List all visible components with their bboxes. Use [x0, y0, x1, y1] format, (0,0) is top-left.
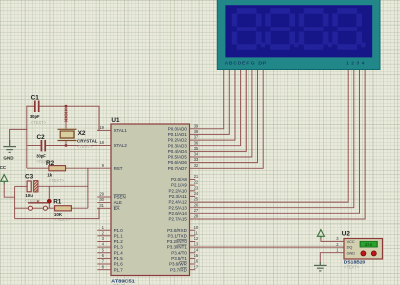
U1 right pin names	[167, 126, 188, 272]
svg-text:1: 1	[346, 61, 349, 67]
svg-text:P2.1/A9: P2.1/A9	[171, 183, 187, 188]
svg-text:F: F	[246, 61, 249, 67]
microcontroller U1 AT89C51 body	[111, 124, 190, 276]
svg-text:P0.7/AD7: P0.7/AD7	[168, 166, 188, 171]
svg-text:P0.4/AD4: P0.4/AD4	[168, 149, 188, 154]
svg-text:24: 24	[194, 191, 199, 196]
push button	[28, 200, 48, 210]
wire VCC to rail	[4, 183, 14, 197]
display segment pin labels ABCDEFG DP	[225, 61, 268, 67]
svg-text:P0.0/AD0: P0.0/AD0	[168, 126, 188, 131]
wire ground stem	[9, 129, 11, 141]
wire P2.6 to display digit 3	[190, 69, 360, 213]
junction B	[65, 144, 68, 147]
wire crystal top pin	[65, 106, 67, 128]
wire C1 to XTAL1	[39, 106, 99, 130]
wire to ground	[10, 128, 28, 130]
U2 pin numbers	[336, 236, 339, 252]
svg-text:P3.4/T0: P3.4/T0	[171, 250, 187, 255]
wire P1 pin stubs 1-8	[97, 230, 111, 270]
wire VCC to C3	[15, 185, 27, 187]
svg-text:27.0: 27.0	[365, 243, 372, 247]
wire ALE pin stub 30	[97, 202, 111, 204]
svg-text:15: 15	[194, 253, 199, 258]
svg-text:34: 34	[194, 152, 199, 157]
wire C3 net to button row	[48, 186, 50, 208]
wire XTAL1 pin stub 19	[97, 129, 111, 131]
wire P0.1 to display	[190, 69, 230, 134]
U2 pin names	[347, 240, 356, 255]
wire VCC rail vertical	[14, 186, 16, 218]
svg-text:P3.6/WR: P3.6/WR	[169, 262, 187, 267]
svg-text:<TEXT>: <TEXT>	[77, 144, 93, 149]
wire P0.4 to display	[190, 69, 247, 151]
svg-text:U1: U1	[111, 117, 120, 124]
svg-text:30pF: 30pF	[30, 114, 40, 119]
svg-text:33: 33	[194, 157, 199, 162]
svg-text:13: 13	[194, 242, 199, 247]
svg-text:P1.7: P1.7	[114, 267, 124, 272]
svg-text:P2.6/A14: P2.6/A14	[169, 211, 188, 216]
svg-text:P3.7/RD: P3.7/RD	[170, 267, 187, 272]
svg-text:28: 28	[194, 214, 199, 219]
svg-text:18: 18	[99, 140, 104, 145]
svg-text:P0.3/AD3: P0.3/AD3	[168, 143, 188, 148]
svg-text:GND: GND	[347, 251, 356, 255]
svg-text:31: 31	[99, 203, 104, 208]
wire ground rail vertical	[26, 106, 28, 169]
wire U2 GND down	[320, 253, 344, 264]
wire P0.7 to display	[190, 69, 264, 168]
svg-text:P0.5/AD5: P0.5/AD5	[168, 155, 188, 160]
svg-text:P2.5/A13: P2.5/A13	[169, 205, 188, 210]
wire C2 left	[27, 145, 40, 147]
svg-text:XTAL1: XTAL1	[114, 128, 128, 133]
svg-text:<TEXT>: <TEXT>	[31, 120, 47, 125]
svg-text:C3: C3	[25, 174, 34, 181]
resistor R1	[55, 206, 72, 211]
wire P0.3 to display	[190, 69, 241, 145]
svg-text:C: C	[233, 61, 237, 67]
svg-text:VCC: VCC	[0, 165, 7, 170]
wire P3.3 to U2 DQ	[190, 246, 345, 248]
svg-text:P3.1/TXD: P3.1/TXD	[168, 233, 187, 238]
svg-text:P0.1/AD1: P0.1/AD1	[168, 132, 188, 137]
wire R1/C3 to RST vertical	[87, 168, 89, 208]
svg-text:XTAL2: XTAL2	[114, 143, 128, 148]
svg-text:30: 30	[99, 197, 104, 202]
wire crystal bottom pin	[65, 141, 67, 146]
svg-text:26: 26	[194, 202, 199, 207]
svg-text:25: 25	[194, 197, 199, 202]
svg-text:PSEN: PSEN	[114, 195, 126, 200]
svg-text:P0.6/AD6: P0.6/AD6	[168, 160, 188, 165]
power VCC for U2	[317, 230, 324, 239]
svg-text:B: B	[229, 61, 233, 67]
svg-text:DQ: DQ	[347, 246, 353, 250]
svg-text:<TEXT>: <TEXT>	[54, 217, 70, 222]
temperature sensor U2 DS18B20 body	[344, 239, 383, 260]
svg-text:VCC: VCC	[347, 240, 355, 244]
svg-text:DP: DP	[258, 61, 267, 67]
svg-text:P1.5: P1.5	[114, 256, 124, 261]
wire P2.7 to display digit 4	[190, 69, 366, 219]
wire VCC to U2 pin 3	[321, 238, 344, 241]
svg-text:EA: EA	[114, 206, 120, 211]
capacitor C1	[35, 101, 39, 113]
svg-text:P2.0/A8: P2.0/A8	[171, 177, 187, 182]
svg-text:P1.0: P1.0	[114, 228, 124, 233]
svg-text:10: 10	[194, 225, 199, 230]
wire to button	[15, 207, 29, 209]
svg-text:38: 38	[194, 129, 199, 134]
wire C3 to RST net	[38, 185, 88, 187]
svg-text:4: 4	[362, 61, 365, 67]
wire PSEN pin stub 29	[97, 196, 111, 198]
svg-text:1k: 1k	[47, 173, 52, 178]
svg-text:R1: R1	[53, 198, 62, 205]
U2 LCD readout	[360, 241, 378, 248]
ground for U2	[314, 262, 327, 271]
wire P0.6 to display	[190, 69, 258, 162]
wire XTAL2 pin stub 18	[97, 145, 111, 147]
U2 buttons	[361, 251, 376, 256]
svg-text:19: 19	[99, 125, 104, 130]
svg-text:P1.3: P1.3	[114, 245, 124, 250]
wire P2.0-P2.3 pin stubs	[190, 180, 196, 197]
svg-text:R2: R2	[46, 160, 55, 167]
wire P2.5 to display digit 2	[190, 69, 354, 207]
svg-text:16: 16	[194, 259, 199, 264]
wire C2 to XTAL2	[46, 145, 98, 147]
pin cross marks	[65, 109, 68, 122]
svg-text:3: 3	[356, 61, 359, 67]
wire button middle	[33, 207, 44, 209]
svg-text:29: 29	[99, 192, 104, 197]
7-segment display DS1	[217, 0, 380, 70]
svg-text:12: 12	[194, 236, 199, 241]
wire P0.2 to display	[190, 69, 236, 140]
resistor R2	[49, 166, 66, 171]
svg-text:GND: GND	[3, 156, 13, 161]
junction A	[65, 105, 68, 108]
svg-text:P3.5/T1: P3.5/T1	[171, 256, 187, 261]
svg-text:11: 11	[194, 230, 199, 235]
U1 left pin numbers	[99, 125, 104, 269]
crystal X2	[58, 129, 77, 140]
svg-text:P1.1: P1.1	[114, 233, 124, 238]
svg-text:2: 2	[351, 61, 354, 67]
wire button to R1	[48, 207, 55, 209]
svg-text:ALE: ALE	[114, 200, 122, 205]
wire EA pin stub 31	[97, 207, 111, 209]
svg-text:14: 14	[194, 247, 199, 252]
svg-text:RST: RST	[114, 166, 123, 171]
svg-text:P0.2/AD2: P0.2/AD2	[168, 138, 188, 143]
svg-text:P3.2/INT0: P3.2/INT0	[167, 239, 188, 244]
svg-text:<TEXT>: <TEXT>	[344, 265, 360, 270]
svg-text:P1.2: P1.2	[114, 239, 124, 244]
junction dot	[47, 199, 51, 203]
U1 left pin names	[114, 128, 128, 272]
capacitor C3	[27, 181, 38, 192]
svg-text:P3.3/INT1: P3.3/INT1	[167, 245, 188, 250]
U1 right pin numbers	[194, 123, 199, 269]
svg-text:P2.2/A10: P2.2/A10	[169, 188, 188, 193]
svg-text:P1.6: P1.6	[114, 262, 124, 267]
wire C1 left	[27, 105, 34, 107]
svg-text:37: 37	[194, 135, 199, 140]
svg-text:36: 36	[194, 140, 199, 145]
wire R1 right	[71, 207, 88, 209]
wire P3 pin stubs	[190, 230, 196, 270]
svg-text:P2.3/A11: P2.3/A11	[169, 194, 187, 199]
ground	[3, 140, 16, 152]
svg-text:32: 32	[194, 163, 199, 168]
svg-text:23: 23	[194, 185, 199, 190]
svg-text:<TEXT>: <TEXT>	[49, 178, 65, 183]
wire VCC to EA	[15, 208, 99, 218]
svg-text:17: 17	[194, 264, 199, 269]
svg-text:P3.0/RXD: P3.0/RXD	[167, 228, 187, 233]
svg-text:27: 27	[194, 208, 199, 213]
svg-text:P2.7/A15: P2.7/A15	[169, 217, 188, 222]
capacitor C2	[41, 140, 45, 151]
power VCC	[1, 175, 8, 184]
wire P2.4 to display digit 1	[190, 69, 349, 202]
svg-text:X2: X2	[78, 130, 86, 137]
wire rail to R2	[27, 167, 49, 169]
wire P0.0 to display	[190, 69, 224, 128]
svg-text:C2: C2	[37, 134, 46, 141]
wire P0.5 to display	[190, 69, 252, 157]
svg-text:C1: C1	[31, 95, 40, 102]
wire R2 to RST pin 9	[66, 167, 111, 169]
svg-text:35: 35	[194, 146, 199, 151]
display digit pin labels 1234	[346, 61, 365, 67]
svg-text:U2: U2	[342, 230, 351, 237]
svg-text:P1.4: P1.4	[114, 250, 124, 255]
svg-text:22: 22	[194, 180, 199, 185]
svg-text:21: 21	[194, 174, 199, 179]
svg-text:G: G	[251, 61, 255, 67]
svg-text:39: 39	[194, 123, 199, 128]
svg-text:P2.4/A12: P2.4/A12	[169, 200, 188, 205]
